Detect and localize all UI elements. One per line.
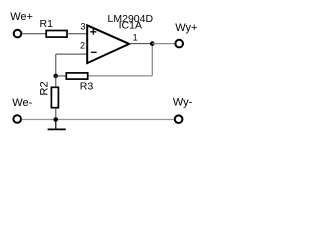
resistor R2: [51, 87, 58, 107]
ground: [48, 120, 66, 130]
resistor R3: [66, 73, 87, 79]
svg-text:Wy-: Wy-: [173, 97, 193, 109]
wire pin 2 vertical: [55, 54, 57, 76]
junction node at R2/R3: [53, 74, 58, 79]
wire output to Wy+: [152, 43, 174, 45]
svg-text:R1: R1: [40, 18, 54, 30]
op-amp IC1A: [87, 25, 129, 63]
wire op-amp output: [129, 43, 152, 45]
op-amp - input mark: [91, 51, 97, 53]
junction node at ground: [53, 117, 58, 122]
svg-text:We-: We-: [12, 97, 32, 109]
svg-text:R2: R2: [38, 81, 50, 95]
svg-text:R3: R3: [80, 81, 94, 93]
wire R3 to feedback corner: [89, 75, 153, 77]
wire We+ to R1: [22, 33, 46, 35]
wire R2 bottom lead: [55, 108, 57, 120]
svg-text:3: 3: [80, 21, 85, 31]
wire feedback vertical: [151, 44, 153, 76]
junction node at output: [150, 41, 155, 46]
terminal Wy-: [175, 115, 183, 123]
wire We- to Wy-: [22, 119, 174, 121]
wire R1 to pin 3: [67, 33, 87, 35]
svg-text:IC1A: IC1A: [119, 19, 142, 31]
svg-text:1: 1: [133, 33, 138, 43]
resistor R1: [46, 31, 67, 38]
op-amp + input mark: [90, 29, 96, 35]
wire R2 top lead: [55, 76, 57, 87]
terminal We-: [13, 115, 21, 123]
terminal We+: [14, 30, 22, 38]
wire junction to R3: [56, 75, 67, 77]
terminal Wy+: [175, 40, 183, 48]
wire pin 2 horizontal: [56, 53, 87, 55]
svg-text:2: 2: [80, 40, 85, 50]
svg-text:We+: We+: [10, 11, 33, 23]
svg-text:Wy+: Wy+: [175, 22, 197, 34]
